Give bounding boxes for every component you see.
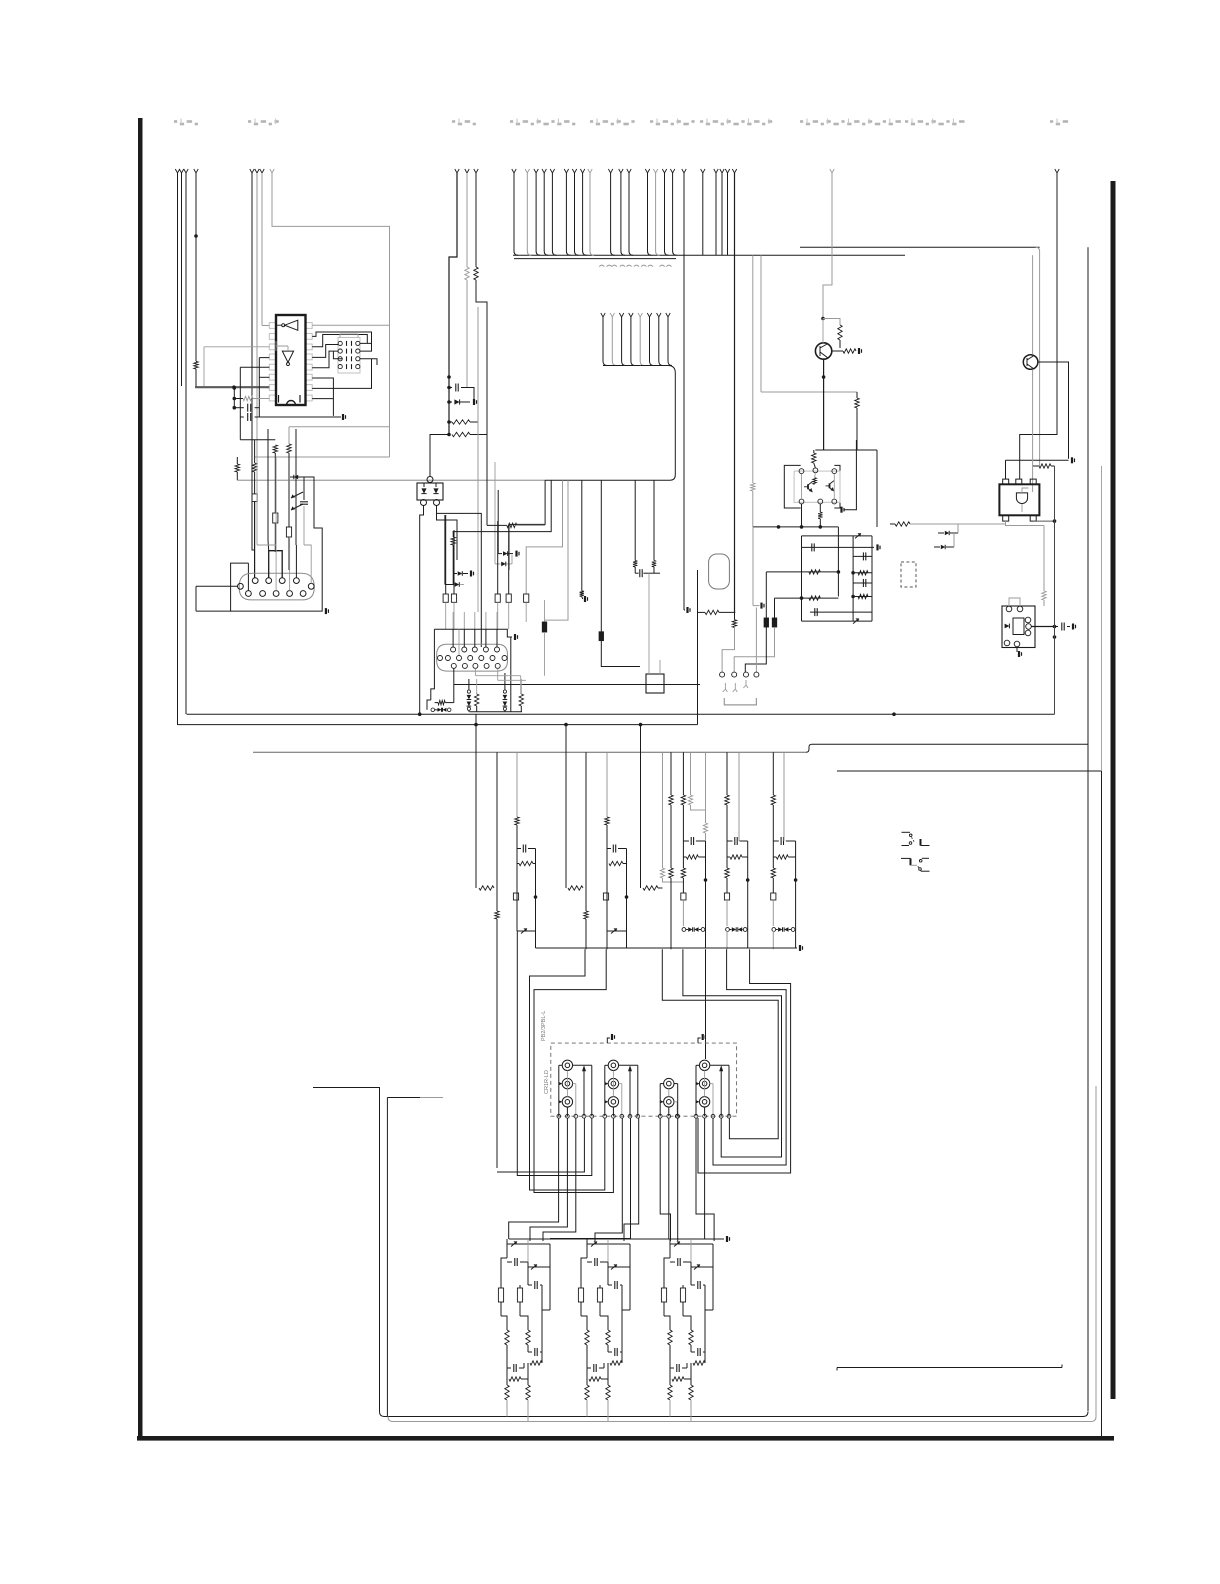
- circles row x722-757: [720, 672, 725, 677]
- serpentine p2 resistor: [452, 532, 454, 537]
- bottom box gray: [388, 1086, 1096, 1422]
- IC U1 buffer symbol: [282, 351, 293, 362]
- switch SW2: [901, 857, 911, 859]
- rail y714 corner up x1054.5: [1054, 466, 1056, 714]
- wire x234 vertical: [233, 388, 235, 408]
- junction dots x449: [447, 375, 451, 379]
- RN1 circles: [338, 341, 342, 345]
- J2 feed wires: [452, 629, 454, 647]
- svg-text:PB2/3PBL-L: PB2/3PBL-L: [541, 1011, 547, 1041]
- gray wire x761 corner: [760, 255, 762, 392]
- resistor R-A on x196: [194, 361, 198, 369]
- J2 row3 pin1 drop: [453, 668, 455, 702]
- loop left L1: [497, 1118, 584, 1172]
- gray drop x662: [662, 752, 664, 868]
- wire x445 top: [444, 515, 446, 585]
- transistor Q1: [815, 343, 831, 359]
- U4 top rail: [815, 449, 877, 451]
- contact marks under circles: [723, 683, 728, 692]
- wire x259 vertical: [258, 358, 260, 417]
- U3 to J2 feed: [437, 506, 482, 648]
- wire y1097 from left: [387, 1097, 420, 1099]
- serpentine peel p2: [453, 480, 552, 531]
- wire gray from stub272 to x389: [270, 169, 274, 173]
- wire heavy center x457-449: [455, 169, 459, 173]
- wires dropping to J2: [452, 612, 454, 629]
- DB9 pin6 feed: [295, 545, 297, 578]
- wire x1088 long: [1087, 247, 1089, 1411]
- U4 pins: [799, 469, 804, 474]
- capacitor C-C: [449, 387, 452, 389]
- relay grounds top: [607, 1038, 610, 1043]
- serpentine peel p6: [600, 480, 602, 632]
- clipped net labels top: [174, 120, 177, 123]
- bottom group at x579: [586, 1239, 588, 1258]
- RC row res2: [775, 597, 839, 599]
- bundle stubs group F: [608, 169, 612, 173]
- wire to x275 resistor: [240, 439, 275, 441]
- bottom group at x499: [506, 1239, 508, 1258]
- ferrite on gray x545: [544, 600, 546, 622]
- loop right R3: [713, 949, 786, 1165]
- diode row2: [445, 584, 454, 586]
- relay contact group4: [699, 1060, 709, 1070]
- U5 bottom wires: [1033, 520, 1055, 522]
- wire x419 drop: [419, 540, 421, 714]
- wire pin L5: [240, 366, 269, 368]
- IC U1 notch: [287, 401, 296, 405]
- wire to comp U3: [430, 435, 449, 478]
- serpentine peel p8: [653, 480, 655, 560]
- loop left L2: [517, 1118, 592, 1176]
- loop left L4: [534, 949, 613, 1192]
- gray rail y457 to DB9: [255, 456, 390, 458]
- gray wire x1044 resistor: [1043, 526, 1045, 592]
- RC row cap long: [810, 611, 872, 613]
- optocoupler arrows: [290, 476, 302, 478]
- resistor network RN1 box: [338, 338, 360, 374]
- drop x640: [640, 725, 642, 888]
- U6 enclosure: [1002, 606, 1035, 648]
- J2 resistor mid: [476, 679, 478, 694]
- U4 outer right box: [844, 440, 857, 510]
- J2 diode stack mid: [467, 690, 470, 693]
- U6 diode: [1005, 624, 1010, 629]
- bundle stubs group I: [714, 169, 718, 173]
- wire x240 vertical: [239, 367, 241, 440]
- bus rail y247: [800, 246, 1040, 248]
- tiny gray marks under rails: [599, 265, 604, 267]
- wire stub x1057: [1055, 169, 1059, 173]
- rail y725 corner up x697: [697, 570, 699, 725]
- wire pin L4 to x260: [259, 357, 269, 359]
- gray wire x857 resistor: [856, 392, 858, 398]
- wire into relay group4: [705, 949, 707, 1059]
- gray path to Q1: [830, 169, 834, 173]
- small block J3: [646, 674, 664, 693]
- U4 transistor Q3: [829, 483, 831, 488]
- bundle stubs group G: [645, 169, 649, 173]
- wire stub group A x177-196: [175, 169, 179, 173]
- IC U1 inverter symbol: [285, 320, 298, 330]
- J2 rail y684: [454, 684, 700, 686]
- gray wire x750 resistor: [752, 255, 754, 483]
- wires IC right pins staircase: [312, 332, 371, 343]
- wire stub x476 resistor: [474, 169, 478, 173]
- gray feeders CH4 CH5: [738, 752, 740, 841]
- IC U1 body: [276, 315, 306, 405]
- resistor R-mid y612: [698, 611, 706, 613]
- capacitor C-A row407: [234, 407, 244, 409]
- diode row4: [495, 563, 501, 565]
- rail y247 drop right: [1036, 247, 1040, 466]
- pill outline: [709, 554, 730, 589]
- relay K1 dashed box: [551, 1043, 737, 1116]
- serpentine peel p4: [545, 480, 569, 620]
- DB9 gray feeds: [275, 457, 277, 591]
- switch SW1: [902, 831, 911, 833]
- resistor R-L8 row: [234, 398, 243, 400]
- staircase to circles: [722, 628, 734, 673]
- U4 right bracket: [834, 465, 840, 508]
- wire stub x467 resistor: [465, 169, 469, 173]
- U4 transistor Q2: [807, 484, 809, 489]
- RN1 dashed elements: [346, 341, 348, 346]
- resistor R-Q1: [838, 325, 842, 340]
- J2 resistor right: [520, 679, 522, 694]
- U4 resistor top: [812, 453, 816, 463]
- rail jog y752-744: [806, 744, 812, 752]
- transistor Q4: [1023, 355, 1038, 370]
- channel CH1: [516, 752, 518, 817]
- mid-level stub bundle x603-668: [601, 313, 605, 317]
- diode D-C to ground: [449, 401, 452, 403]
- U6 pins: [1006, 606, 1012, 612]
- J2 diode stack right: [503, 690, 506, 693]
- RC row cap gnd: [802, 546, 875, 548]
- page border right: [1111, 181, 1116, 1399]
- cap C-B x304: [303, 477, 305, 500]
- J2 pins row3: [451, 663, 456, 668]
- IC U1 pins left: [269, 323, 276, 329]
- connector J2 enclosure: [434, 629, 512, 637]
- serpentine peel p1: [509, 480, 545, 570]
- U6 ground: [1016, 648, 1018, 653]
- bottom box black: [380, 1412, 1089, 1417]
- RC row res1: [766, 571, 838, 573]
- resistor R-x901: [895, 522, 910, 526]
- DB9 connector J1 shell: [239, 573, 314, 600]
- DB9 notch edge: [247, 563, 249, 591]
- drop x476: [475, 714, 477, 888]
- DB9 side pin left wire: [196, 585, 238, 587]
- rail y744: [812, 743, 1088, 745]
- U3 lower wires: [420, 506, 424, 541]
- rail y527: [753, 526, 838, 528]
- U4 lower resistor: [819, 504, 821, 512]
- channel CH5 triple: [772, 752, 774, 795]
- U4 pin feeds gray: [801, 474, 803, 500]
- DB9 pins bottom row: [246, 591, 252, 597]
- DB9 bracket loop: [269, 551, 283, 578]
- wire x487 resistor row: [486, 462, 488, 525]
- U4 inner body: [794, 471, 840, 502]
- wire stub group B x252-271: [250, 169, 254, 173]
- drop x566: [565, 725, 567, 888]
- U4 bottom-left pin wire: [801, 504, 803, 527]
- wire x237 resistor to y480: [236, 457, 238, 464]
- wire pin L6: [259, 376, 269, 378]
- wire pin L1 gray: [262, 325, 269, 327]
- RC left drops: [765, 572, 767, 618]
- ground rail y460: [1006, 459, 1069, 461]
- wire y1087 from left: [313, 1088, 380, 1412]
- resistor R-C2: [452, 432, 470, 436]
- second bus rail: [514, 258, 676, 260]
- DB9 connector J1 enclosure: [231, 548, 323, 611]
- RC row cap right2: [853, 582, 872, 584]
- rail y752 gray long: [253, 751, 806, 753]
- channel CH3 triple: [682, 752, 684, 795]
- wire x275 ferrite: [274, 453, 276, 513]
- DB9 feed wires: [252, 462, 255, 550]
- loop right R4: [698, 949, 791, 1173]
- DB9 pins top row: [252, 578, 258, 584]
- RC verticals: [801, 536, 803, 621]
- wire right branch x314: [296, 477, 322, 548]
- U4 inner resistor: [813, 478, 817, 485]
- ferrite row above J2: [445, 515, 447, 594]
- ferrite FB2 x289: [286, 527, 291, 537]
- bundle stubs group H: [682, 169, 686, 173]
- gray bracket under circles: [724, 698, 756, 705]
- ground x684: [683, 255, 685, 610]
- bus rail y255: [513, 254, 905, 256]
- J2 pins row2: [445, 656, 450, 661]
- ground rail under IC: [259, 416, 341, 418]
- J2 gray side links: [474, 668, 476, 675]
- Q1 emitter resistor to ground: [832, 350, 843, 352]
- U4 left bracket: [784, 465, 800, 508]
- page border left: [138, 118, 143, 1439]
- gray vertical x1033: [1032, 255, 1034, 355]
- cap C-U6: [1055, 626, 1059, 628]
- DB9 pins side: [238, 583, 244, 589]
- U6 inner: [1013, 618, 1024, 635]
- rail y1239: [509, 1238, 724, 1240]
- wire x1101 lower: [1101, 771, 1103, 1437]
- U4 right enclosure: [876, 450, 878, 527]
- wire x1101 gray upper: [1101, 466, 1103, 771]
- bottom group at x662: [669, 1239, 671, 1258]
- dashed box spare: [901, 562, 916, 587]
- channel CH4 triple: [726, 752, 728, 795]
- wire x254 resistor ferrite: [254, 440, 256, 463]
- wire x495 gray: [494, 462, 496, 564]
- gray loop from pin R1: [312, 324, 389, 326]
- diode row3 gnd: [498, 553, 502, 555]
- wire bold rail y387: [195, 386, 269, 388]
- J2 pins row1: [451, 647, 456, 652]
- page border bottom: [137, 1436, 1114, 1441]
- svg-text:CR1R-LD: CR1R-LD: [544, 1070, 550, 1094]
- IC U1 inner marks: [278, 395, 280, 403]
- wire x268: [267, 429, 269, 540]
- J2 bottom rail: [470, 711, 523, 713]
- channel CH2: [606, 752, 608, 817]
- connector J2 shell: [437, 644, 508, 671]
- resistor on gray loop: [288, 427, 290, 444]
- rail y725: [178, 724, 698, 726]
- gnd left: [753, 605, 760, 607]
- serpentine peel p7: [634, 480, 636, 560]
- U5 AND symbol: [1016, 493, 1027, 504]
- loop right R2: [683, 949, 782, 1157]
- rail y948: [536, 947, 798, 949]
- RC row cap right: [853, 555, 872, 557]
- relay contact groups: [562, 1060, 572, 1070]
- capacitor C-B row417: [240, 416, 244, 418]
- wire x296 diode branch: [295, 429, 297, 477]
- CH3 feeder resistors: [670, 752, 672, 795]
- bundle stubs group E: [564, 169, 568, 173]
- serpentine peel p3: [526, 480, 562, 594]
- relay drop wires: [509, 1118, 559, 1239]
- diode pair right: [945, 531, 949, 535]
- Q4 collector wire: [1038, 362, 1069, 459]
- U5 body: [999, 484, 1039, 515]
- drop x586 resistor: [585, 752, 587, 911]
- resistor R-U5: [1033, 465, 1039, 467]
- loop left L3: [530, 949, 605, 1190]
- bundle stubs into y255 left: [512, 169, 516, 173]
- J2 lower left network: [427, 700, 431, 710]
- gray rail y480: [237, 479, 545, 481]
- resistor R-C1: [452, 420, 470, 424]
- RC row bottom: [802, 620, 873, 622]
- RC row transistor: [802, 535, 873, 537]
- wire pin L3: [204, 346, 269, 348]
- junction dots x234: [233, 386, 237, 390]
- rail y771: [837, 770, 1102, 772]
- relay contact group3: [664, 1078, 674, 1088]
- drop x497 resistor: [496, 752, 498, 911]
- ferrite pair: [764, 618, 768, 627]
- U6 wires: [1009, 598, 1020, 606]
- Q1 collector wire: [823, 359, 825, 450]
- bundle collector serpentine: [545, 366, 675, 481]
- U5 pins: [1003, 479, 1009, 484]
- rail y714: [187, 713, 1055, 715]
- gray wire x478: [477, 307, 479, 422]
- component U3 4pin: [427, 477, 433, 483]
- wire segment right y1367: [837, 1367, 1062, 1369]
- loop right R1: [662, 949, 778, 1138]
- RN1 gray top link: [340, 334, 358, 338]
- diode row1 gnd: [453, 573, 457, 575]
- wire x734 heavy: [732, 169, 736, 173]
- serpentine peel p5: [581, 480, 583, 591]
